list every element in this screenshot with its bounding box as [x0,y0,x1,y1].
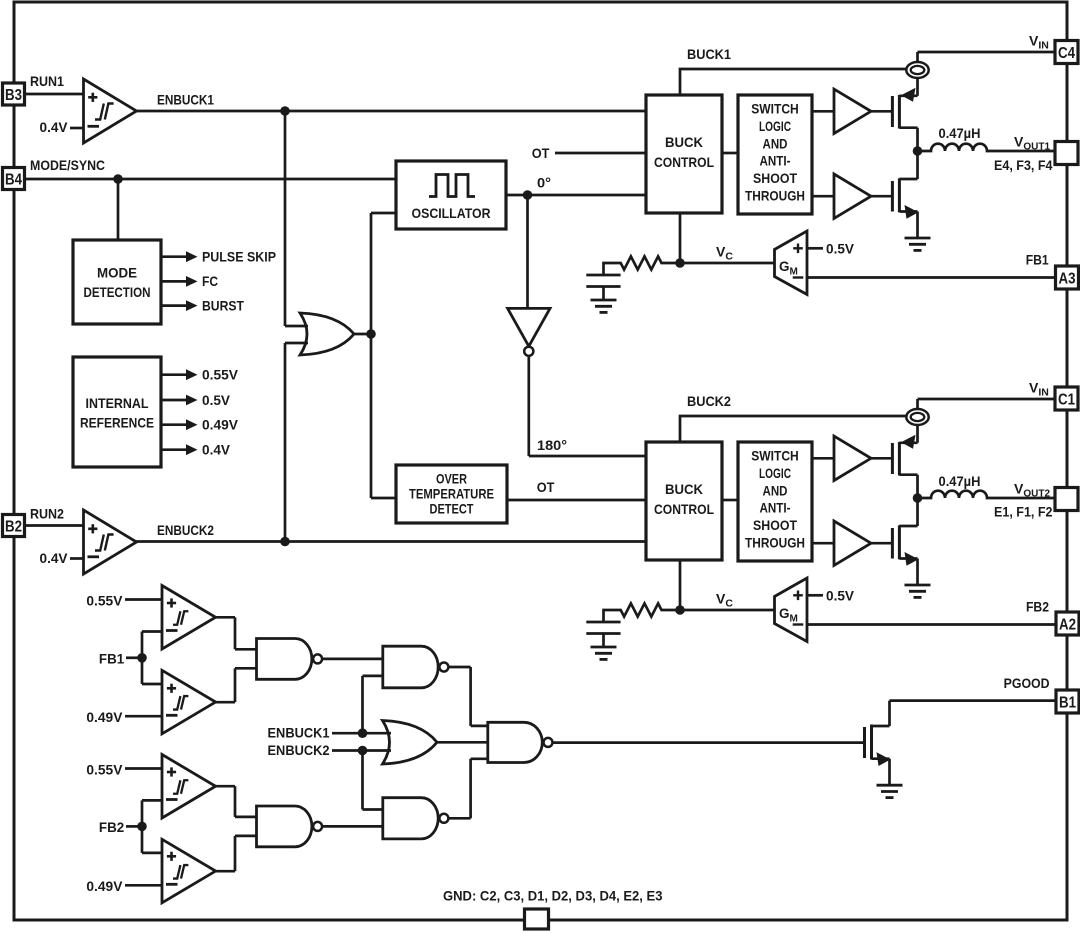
svg-text:180°: 180° [537,437,567,453]
svg-text:CONTROL: CONTROL [654,501,714,517]
svg-text:0.49V: 0.49V [86,709,123,725]
svg-text:FB2: FB2 [1026,599,1049,615]
svg-text:SWITCH: SWITCH [751,101,799,117]
svg-text:AND: AND [763,135,788,151]
svg-text:E4, F3, F4: E4, F3, F4 [994,157,1053,173]
svg-text:SHOOT: SHOOT [753,170,797,186]
svg-text:FC: FC [202,273,218,289]
svg-text:AND: AND [763,482,788,498]
svg-text:REFERENCE: REFERENCE [80,415,154,431]
svg-text:DETECTION: DETECTION [84,284,151,300]
svg-text:DETECT: DETECT [430,501,474,517]
svg-text:PGOOD: PGOOD [1004,675,1050,691]
svg-text:0.55V: 0.55V [202,367,239,383]
svg-text:0.5V: 0.5V [826,588,855,604]
svg-text:0°: 0° [537,175,551,191]
svg-text:GND: C2, C3, D1, D2, D3, D4, E: GND: C2, C3, D1, D2, D3, D4, E2, E3 [443,888,663,904]
svg-text:BUCK1: BUCK1 [687,46,731,62]
svg-text:VIN: VIN [1029,380,1049,399]
svg-text:ANTI-: ANTI- [760,153,791,169]
svg-text:OSCILLATOR: OSCILLATOR [412,205,491,221]
svg-text:B2: B2 [5,519,22,536]
svg-text:TEMPERATURE: TEMPERATURE [409,486,494,502]
svg-text:C4: C4 [1058,45,1075,62]
svg-text:A3: A3 [1059,271,1076,288]
svg-text:0.55V: 0.55V [86,593,123,609]
svg-text:ENBUCK1: ENBUCK1 [268,725,330,741]
svg-text:B1: B1 [1059,695,1076,712]
svg-text:CONTROL: CONTROL [654,154,714,170]
svg-text:GM: GM [779,259,798,278]
svg-text:FB1: FB1 [1026,252,1049,268]
svg-text:VIN: VIN [1029,33,1049,52]
svg-text:VC: VC [716,244,733,263]
svg-text:E1, F1, F2: E1, F1, F2 [994,504,1053,520]
svg-text:0.47µH: 0.47µH [939,125,981,141]
svg-text:SHOOT: SHOOT [753,517,797,533]
svg-text:ANTI-: ANTI- [760,500,791,516]
svg-text:BUCK2: BUCK2 [687,393,731,409]
svg-text:VC: VC [716,591,733,610]
svg-text:VOUT2: VOUT2 [1014,481,1050,500]
svg-text:RUN2: RUN2 [30,506,64,522]
svg-text:BUCK: BUCK [665,481,703,497]
svg-text:OT: OT [537,479,555,495]
svg-text:0.55V: 0.55V [86,762,123,778]
svg-text:MODE/SYNC: MODE/SYNC [30,157,105,173]
svg-text:THROUGH: THROUGH [745,535,805,551]
svg-text:ENBUCK2: ENBUCK2 [268,742,330,758]
svg-text:LOGIC: LOGIC [759,118,791,134]
svg-text:A2: A2 [1059,617,1076,634]
svg-text:ENBUCK1: ENBUCK1 [157,92,214,108]
svg-text:OT: OT [532,145,550,161]
svg-text:OVER: OVER [436,471,467,487]
svg-text:ENBUCK2: ENBUCK2 [157,522,214,538]
svg-text:0.49V: 0.49V [86,878,123,894]
svg-text:B3: B3 [5,87,22,104]
svg-text:GM: GM [779,606,798,625]
svg-text:INTERNAL: INTERNAL [86,395,149,411]
svg-text:0.4V: 0.4V [202,442,231,458]
svg-text:0.5V: 0.5V [826,241,855,257]
svg-text:MODE: MODE [97,265,137,281]
svg-text:0.4V: 0.4V [40,119,69,135]
svg-text:PULSE SKIP: PULSE SKIP [202,249,276,265]
svg-text:0.47µH: 0.47µH [939,473,981,489]
svg-text:FB1: FB1 [99,651,124,667]
svg-text:0.49V: 0.49V [202,417,239,433]
svg-text:0.4V: 0.4V [40,550,69,566]
svg-text:RUN1: RUN1 [30,73,64,89]
svg-text:THROUGH: THROUGH [745,188,805,204]
svg-text:SWITCH: SWITCH [751,448,799,464]
svg-text:BUCK: BUCK [665,134,703,150]
svg-text:LOGIC: LOGIC [759,465,791,481]
svg-text:C1: C1 [1058,392,1075,409]
svg-text:FB2: FB2 [99,819,124,835]
svg-text:VOUT1: VOUT1 [1014,134,1050,153]
svg-text:0.5V: 0.5V [202,392,231,408]
svg-text:B4: B4 [5,172,22,189]
svg-text:BURST: BURST [202,297,244,313]
